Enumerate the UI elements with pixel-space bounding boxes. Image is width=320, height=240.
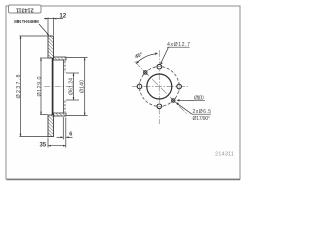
- svg-text:Ø129.0: Ø129.0: [37, 77, 43, 97]
- svg-text:MIN TH 9.6MM: MIN TH 9.6MM: [14, 19, 39, 24]
- svg-text:6: 6: [69, 131, 72, 137]
- svg-text:Ø61.24: Ø61.24: [68, 78, 74, 95]
- svg-text:214311: 214311: [215, 152, 234, 158]
- svg-text:Ø140: Ø140: [80, 80, 86, 93]
- svg-text:Ø17/90°: Ø17/90°: [193, 116, 211, 122]
- svg-text:214311: 214311: [16, 6, 34, 12]
- svg-text:12: 12: [59, 13, 66, 20]
- svg-text:35: 35: [39, 143, 46, 149]
- svg-text:Ø237.8: Ø237.8: [16, 75, 22, 99]
